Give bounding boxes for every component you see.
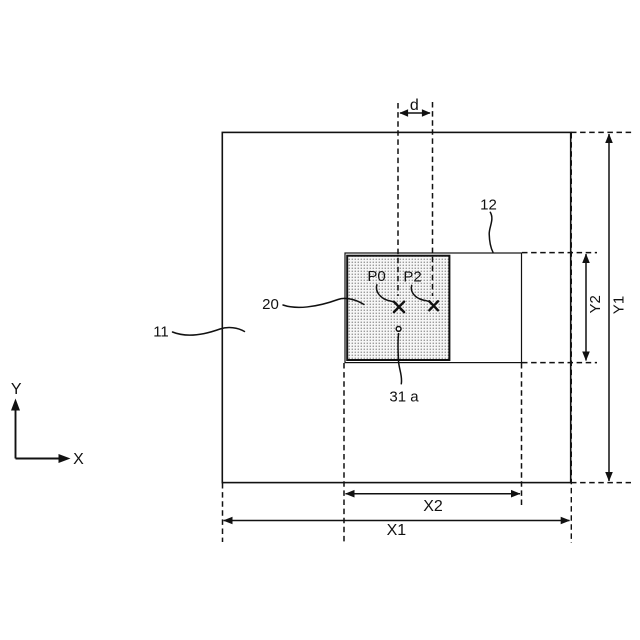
svg-text:20: 20 [262,296,279,313]
svg-text:P0: P0 [367,268,385,285]
svg-text:X2: X2 [423,498,443,515]
svg-text:X: X [73,451,84,468]
svg-text:Y2: Y2 [587,295,604,313]
svg-text:11: 11 [153,324,169,341]
svg-text:Y1: Y1 [610,296,627,314]
svg-text:12: 12 [480,197,497,214]
svg-text:d: d [410,97,419,114]
svg-text:31 a: 31 a [389,389,419,406]
svg-text:X1: X1 [387,522,407,539]
svg-text:P2: P2 [403,268,421,285]
svg-text:Y: Y [11,381,22,398]
